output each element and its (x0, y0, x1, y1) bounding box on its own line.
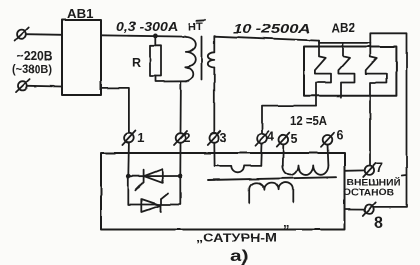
thyristor VS1 triangle (144, 169, 162, 183)
circuit breaker AB2 box (304, 47, 396, 96)
wire terminal 3 into box (213, 143, 215, 166)
secondary winding (249, 183, 293, 203)
terminal 4 (256, 131, 269, 145)
svg-text:3: 3 (220, 131, 227, 145)
wire HT secondary top to 10-2500A line (214, 36, 318, 52)
resistor R (150, 46, 161, 76)
SATURN-M box (101, 153, 345, 230)
dash after ВНЕШНИЙ (402, 174, 406, 177)
svg-text:АВ2: АВ2 (332, 21, 356, 35)
AB2 pole 2 (338, 43, 354, 97)
wire R bottom lead (156, 76, 190, 82)
transformer core line (208, 177, 336, 180)
wire between thyristor junctions (128, 175, 180, 177)
terminal 8 (363, 202, 375, 216)
svg-text:„САТУРН-М: „САТУРН-М (196, 233, 277, 245)
svg-text:0,3 -300А: 0,3 -300А (116, 20, 178, 34)
svg-text:а): а) (230, 248, 249, 265)
thyristor VS2 triangle (142, 199, 161, 212)
wire R top lead (154, 36, 156, 46)
transformer HT secondary winding (208, 52, 215, 67)
svg-text:2: 2 (184, 131, 191, 145)
svg-text:7: 7 (376, 160, 383, 175)
thyristor VS1 cathode bar (143, 170, 145, 183)
transformer HT core (201, 37, 203, 81)
svg-text:8: 8 (374, 215, 383, 232)
terminal 2 (174, 131, 187, 145)
svg-text:АВ1: АВ1 (67, 6, 94, 21)
svg-text:ВНЕШНИЙ: ВНЕШНИЙ (347, 176, 402, 187)
wire jumper AB2 pole tops (319, 41, 370, 43)
AB2 pole 1 (315, 41, 331, 106)
terminal 1 (122, 131, 135, 145)
terminal L2 (16, 79, 30, 92)
wire antiparallel loop (128, 176, 180, 205)
transformer HT primary winding (186, 37, 196, 81)
wire terminal 1 into box (127, 143, 130, 176)
wire box to terminal 7 (345, 169, 365, 171)
wire riser to bypass (370, 33, 406, 207)
terminal 7 (363, 163, 375, 177)
node: thyristor right junction (178, 174, 183, 179)
svg-text:5: 5 (291, 132, 298, 146)
wire L1 to AB1 (27, 33, 62, 36)
wire 0,3-300A : AB1 top output to HT primary (101, 35, 186, 36)
thyristor VS1 gate (136, 182, 144, 190)
wire AB1 bottom output to terminal 1 (101, 88, 129, 133)
svg-text:4: 4 (267, 130, 274, 144)
svg-text:12 =5А: 12 =5А (290, 114, 327, 128)
terminal 3 (208, 131, 221, 145)
terminal 5 (277, 133, 290, 147)
node: R tap junction (153, 34, 158, 39)
svg-text:ОСТАНОВ: ОСТАНОВ (343, 188, 394, 198)
terminal 6 (321, 133, 334, 147)
feedback winding w2 (283, 165, 329, 175)
svg-text:(~380В): (~380В) (12, 62, 52, 76)
svg-text:~220В: ~220В (17, 49, 53, 63)
wire terminal 2 riser (180, 81, 182, 133)
circuit breaker AB1 (62, 20, 101, 95)
wire terminal 6 into box (327, 145, 330, 166)
wire box to terminal 8 (345, 208, 365, 210)
svg-text:6: 6 (337, 129, 344, 143)
svg-text:10 -2500А: 10 -2500А (233, 21, 311, 36)
thyristor VS2 cathode bar (160, 199, 162, 212)
svg-text:1: 1 (138, 132, 145, 146)
wire terminal 4 into box (260, 143, 263, 166)
terminal L1 (15, 28, 29, 41)
AB2 pole 3 (366, 43, 387, 165)
overline of НТ (197, 19, 206, 22)
wire terminal 2 into box (179, 143, 181, 176)
wire terminal 5 into box (282, 144, 285, 165)
node: thyristor left junction (126, 174, 131, 179)
wire L2 to AB1 (28, 85, 63, 88)
svg-text:НТ: НТ (188, 21, 203, 33)
svg-text:”: ” (283, 222, 290, 237)
wire HT secondary bottom to terminal 3 (213, 68, 215, 134)
thyristor VS2 gate (161, 193, 168, 199)
wire AB2 pole1 to terminal 4 (262, 106, 316, 134)
control winding w1 (215, 166, 262, 172)
svg-text:R: R (132, 56, 141, 70)
